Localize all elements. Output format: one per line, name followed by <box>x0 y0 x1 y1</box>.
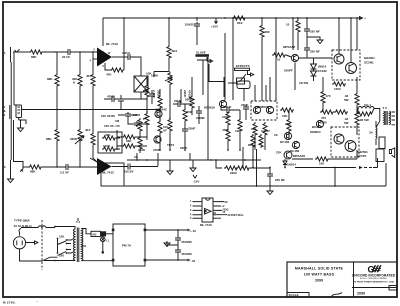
svg-text:- 42: - 42 <box>190 259 196 263</box>
svg-text:MPSA06: MPSA06 <box>293 154 305 158</box>
svg-text:100K: 100K <box>222 115 230 119</box>
svg-text:M 2785.: M 2785. <box>3 301 16 305</box>
svg-text:SC5N1: SC5N1 <box>364 61 374 65</box>
svg-text:22 UF: 22 UF <box>62 55 70 59</box>
svg-text:BC212: BC212 <box>312 125 322 129</box>
svg-text:100: 100 <box>319 162 324 166</box>
svg-text:SCALE: SCALE <box>289 293 299 297</box>
svg-text:UNICORD INCORPORATED: UNICORD INCORPORATED <box>352 274 396 278</box>
svg-text:1R 5W: 1R 5W <box>360 118 369 122</box>
svg-text:+: + <box>364 17 366 21</box>
svg-text:15/15V: 15/15V <box>124 170 134 174</box>
svg-text:OFFSET NULL: OFFSET NULL <box>228 214 245 217</box>
svg-text:470: 470 <box>326 94 331 98</box>
svg-text:100/25: 100/25 <box>185 23 195 27</box>
svg-text:MARSHALL SOLID STATE: MARSHALL SOLID STATE <box>295 266 344 270</box>
svg-text:75 FROST STREET WESTBURY N.Y: 75 FROST STREET WESTBURY N.Y. 11590 <box>354 282 395 284</box>
svg-text:25K: 25K <box>187 110 193 114</box>
svg-text:3K3: 3K3 <box>172 49 178 53</box>
svg-text:22UF: 22UF <box>174 99 182 103</box>
svg-text:10: 10 <box>286 23 290 27</box>
svg-text:330K: 330K <box>70 137 78 141</box>
svg-text:22NF: 22NF <box>188 127 196 131</box>
svg-text:4700: 4700 <box>222 128 229 132</box>
svg-text:2.2 UF: 2.2 UF <box>60 171 69 175</box>
svg-text:BC184C: BC184C <box>156 108 168 112</box>
svg-text:47NF: 47NF <box>107 95 115 99</box>
svg-text:A GULF + WESTERN COMPANY: A GULF + WESTERN COMPANY <box>360 277 388 280</box>
svg-text:NC: NC <box>225 201 229 204</box>
svg-text:25UF: 25UF <box>157 90 161 98</box>
svg-text:470: 470 <box>321 116 326 120</box>
svg-text:100: 100 <box>251 127 256 131</box>
svg-text:TP15: TP15 <box>167 143 175 147</box>
svg-text:KC182: KC182 <box>318 69 328 73</box>
svg-text:MPSA56: MPSA56 <box>283 45 295 49</box>
svg-text:47: 47 <box>259 142 263 146</box>
svg-text:680: 680 <box>265 30 270 34</box>
svg-text:47K: 47K <box>106 73 112 77</box>
svg-text:4700/60: 4700/60 <box>181 252 192 256</box>
svg-text:2N3904: 2N3904 <box>310 130 321 134</box>
svg-text:PM 7A: PM 7A <box>122 244 132 248</box>
svg-text:10: 10 <box>277 58 281 62</box>
svg-text:KC184: KC184 <box>280 140 290 144</box>
svg-text:22NF: 22NF <box>180 146 188 150</box>
svg-text:1R 5W: 1R 5W <box>299 81 308 85</box>
svg-text:KE3619: KE3619 <box>204 106 215 110</box>
svg-text:100K: 100K <box>151 74 159 78</box>
svg-text:-15V: -15V <box>193 180 199 184</box>
svg-text:220 NF: 220 NF <box>310 50 320 54</box>
svg-text:1M: 1M <box>115 119 120 123</box>
svg-text:220 NF: 220 NF <box>275 178 285 182</box>
svg-text:C4700: C4700 <box>261 129 270 133</box>
svg-text:UF: UF <box>163 129 167 133</box>
svg-text:TYPE QMA: TYPE QMA <box>14 219 31 223</box>
svg-text:+15V: +15V <box>211 25 218 29</box>
svg-text:68K: 68K <box>30 170 36 174</box>
svg-text:2099: 2099 <box>315 278 323 282</box>
svg-text:2K2: 2K2 <box>237 21 243 25</box>
svg-text:MJ3001: MJ3001 <box>364 56 375 60</box>
svg-text:ML 741C: ML 741C <box>106 42 119 46</box>
svg-text:33K: 33K <box>126 139 132 143</box>
svg-text:5W: 5W <box>344 121 349 125</box>
svg-text:4K7: 4K7 <box>85 128 91 132</box>
svg-text:220 NF: 220 NF <box>310 30 320 34</box>
svg-text:1500: 1500 <box>334 87 341 91</box>
svg-text:1/25U: 1/25U <box>122 51 130 55</box>
svg-text:MD8003: MD8003 <box>257 105 269 109</box>
svg-text:120: 120 <box>59 235 64 239</box>
svg-text:ML 741C: ML 741C <box>200 223 213 227</box>
svg-text:4700R: 4700R <box>188 90 192 100</box>
svg-text:220NF: 220NF <box>196 116 205 120</box>
svg-text:2200: 2200 <box>230 171 237 175</box>
svg-text:--: -- <box>36 300 38 304</box>
svg-text:SLAVE: SLAVE <box>196 51 206 55</box>
svg-text:100 WATT BASS: 100 WATT BASS <box>304 272 335 276</box>
svg-text:4700/60: 4700/60 <box>181 240 192 244</box>
svg-text:+ 42: + 42 <box>190 229 196 233</box>
svg-text:23NF: 23NF <box>241 103 249 107</box>
svg-text:SC5P1: SC5P1 <box>357 154 367 158</box>
svg-text:22UF: 22UF <box>183 90 187 98</box>
svg-text:27K: 27K <box>276 151 282 155</box>
svg-text:100K: 100K <box>103 144 111 148</box>
svg-text:1N914: 1N914 <box>318 65 327 69</box>
svg-text:2099: 2099 <box>357 292 365 296</box>
svg-text:68K: 68K <box>47 77 53 81</box>
svg-text:1M: 1M <box>133 113 138 117</box>
svg-text:540: 540 <box>92 233 97 236</box>
svg-text:68K: 68K <box>31 55 37 59</box>
svg-text:EFFECTS: EFFECTS <box>236 64 250 68</box>
svg-text:23UF: 23UF <box>224 105 232 109</box>
svg-text:1N914: 1N914 <box>287 163 296 167</box>
svg-text:33K: 33K <box>105 133 111 137</box>
svg-text:27K: 27K <box>285 122 291 126</box>
svg-text:T 3: T 3 <box>383 106 388 110</box>
svg-text:5W: 5W <box>344 98 349 102</box>
svg-text:100 UF/25: 100 UF/25 <box>101 114 115 118</box>
svg-text:68K: 68K <box>46 137 52 141</box>
svg-text:100 UF / 25: 100 UF / 25 <box>104 124 120 128</box>
svg-text:4K7: 4K7 <box>86 74 92 78</box>
svg-text:250PF: 250PF <box>284 69 293 73</box>
svg-text:10K: 10K <box>146 72 152 76</box>
svg-text:10K: 10K <box>282 114 288 118</box>
svg-text:ML 741C: ML 741C <box>102 171 115 175</box>
